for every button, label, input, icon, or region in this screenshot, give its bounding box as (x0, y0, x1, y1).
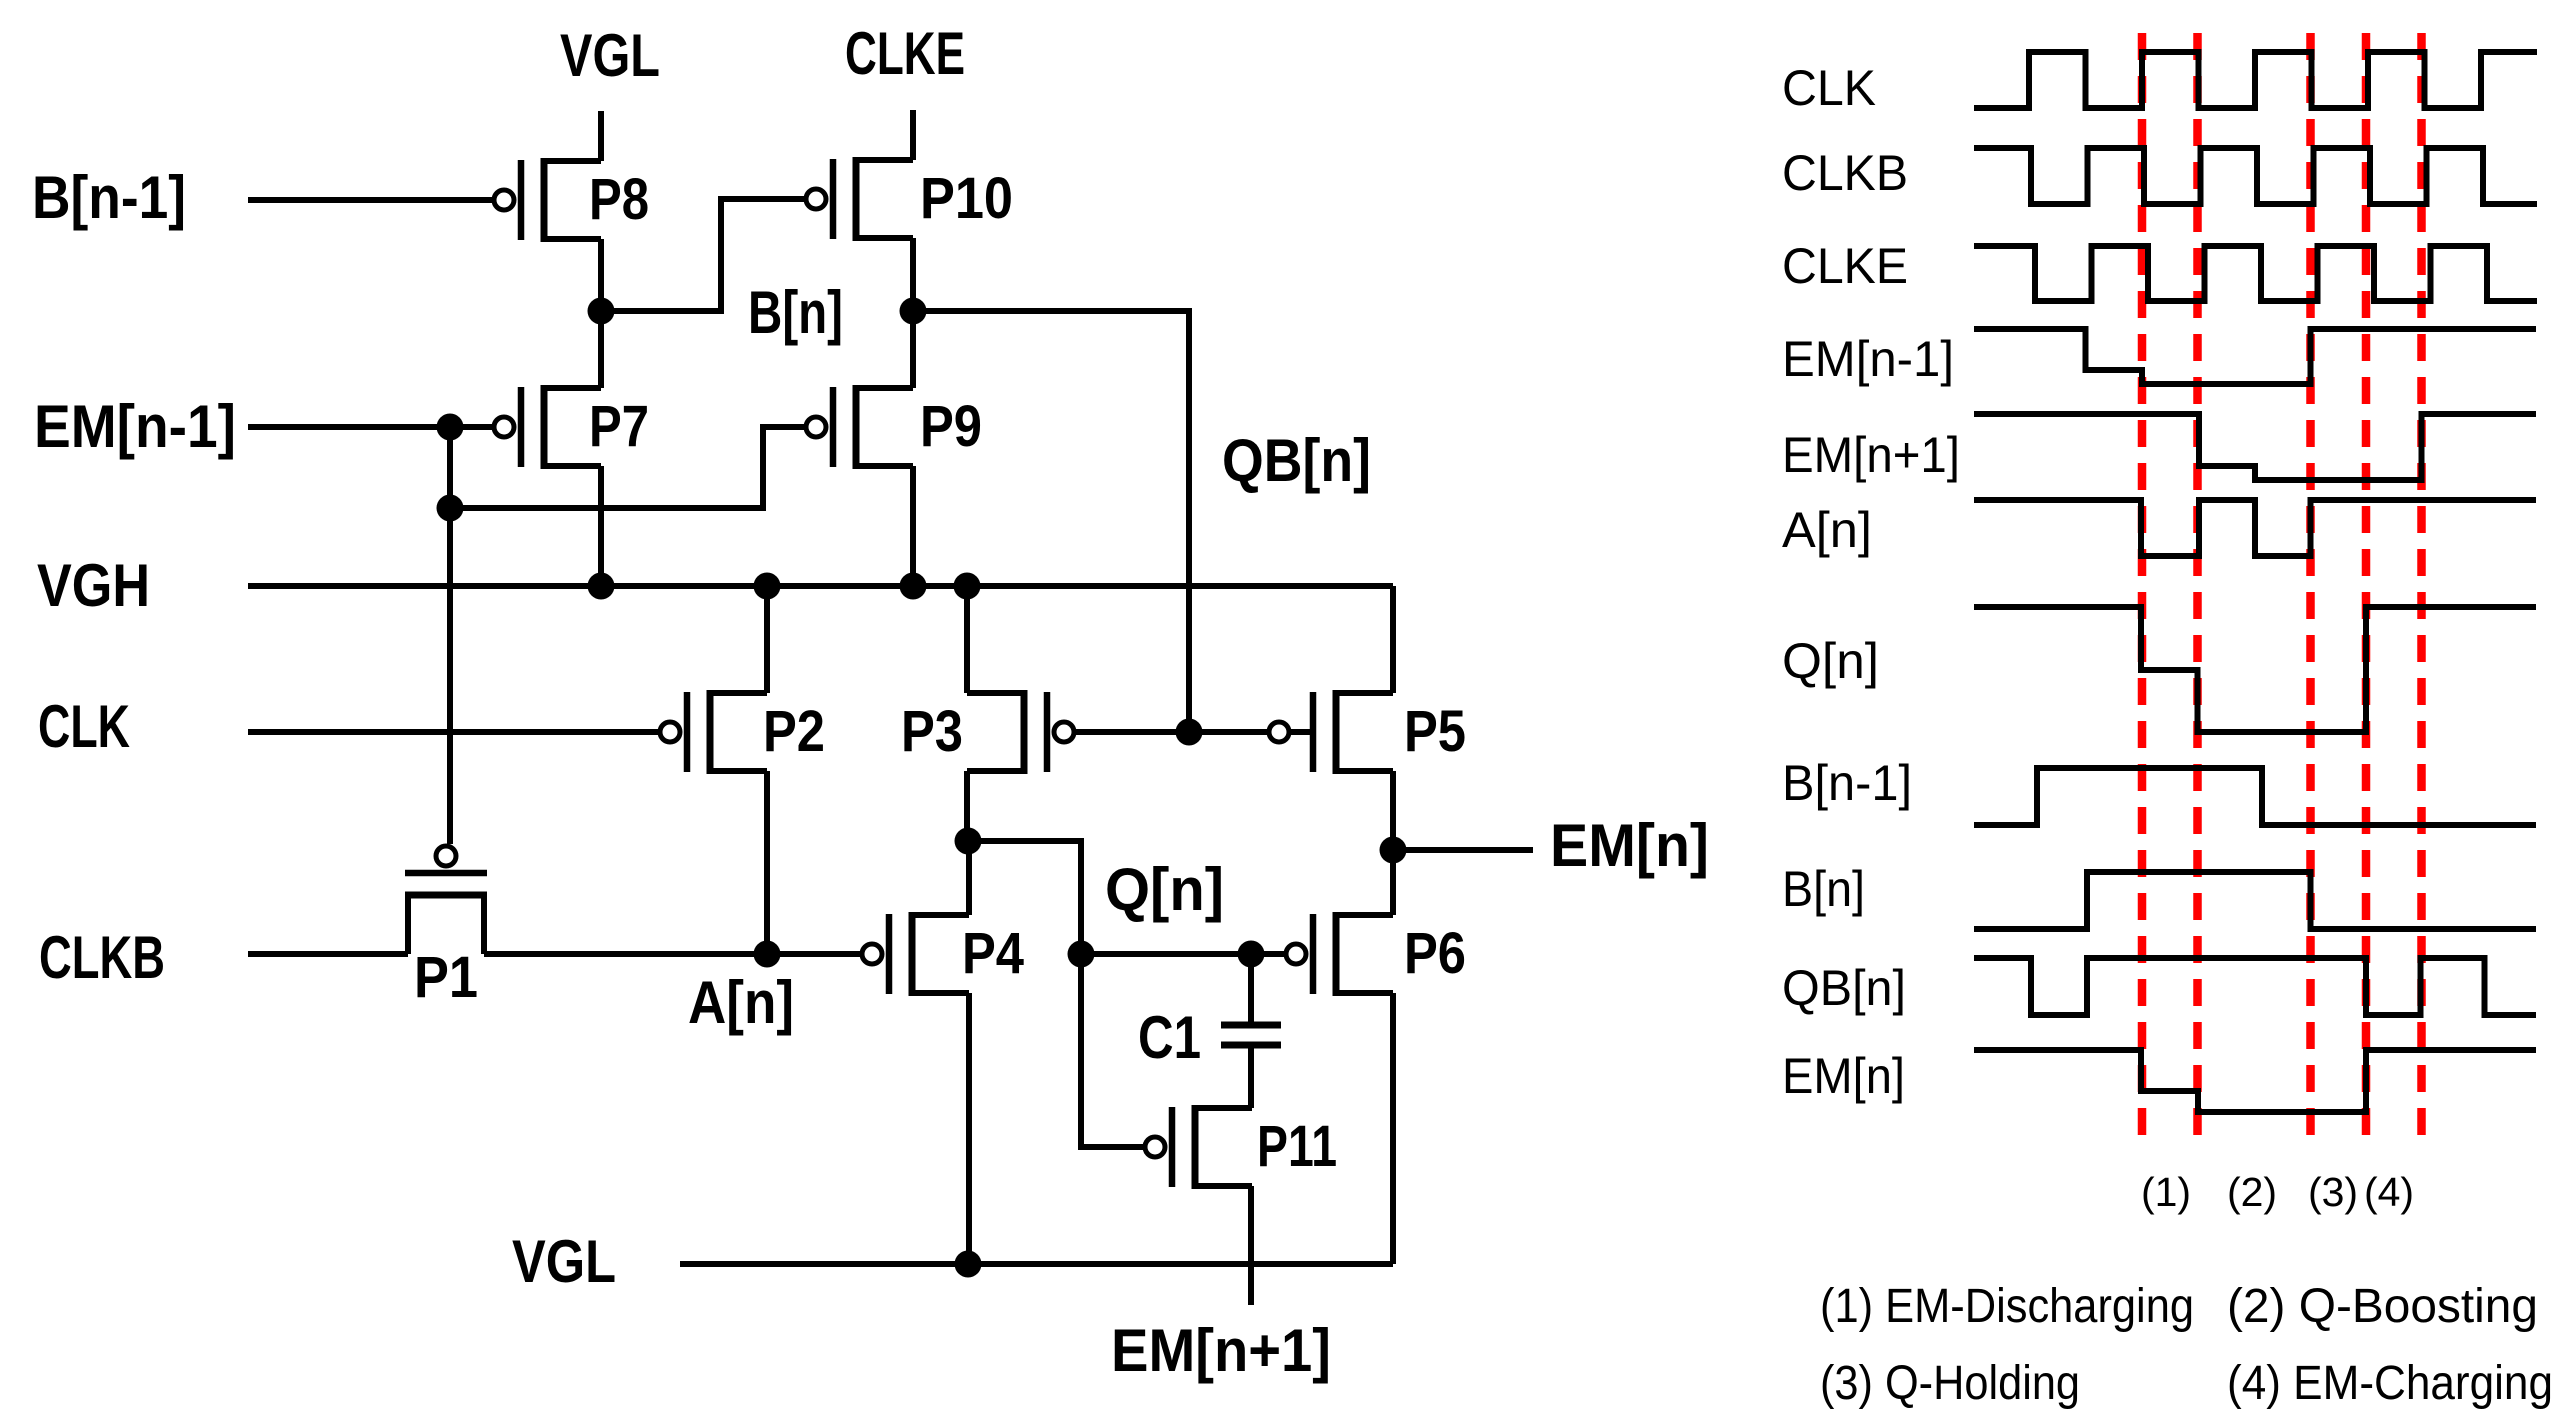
wire B[n] node to P10 gate (601, 199, 804, 311)
svg-text:(4) EM-Charging: (4) EM-Charging (2227, 1357, 2553, 1410)
svg-text:VGL: VGL (512, 1228, 616, 1295)
wire P6 source to EM[n] (1390, 850, 1396, 915)
wire Q[n] upper branch (968, 841, 1081, 954)
waveform A[n] (1974, 500, 2536, 556)
svg-text:P4: P4 (962, 921, 1024, 986)
svg-text:B[n]: B[n] (748, 279, 843, 346)
wire P5 source to VGH corner (1390, 586, 1396, 693)
transistor P4 (862, 912, 1024, 996)
svg-text:P8: P8 (589, 167, 649, 232)
wire P9 drain to VGH (910, 466, 916, 586)
wire P3 drain down (964, 771, 970, 841)
svg-text:CLKE: CLKE (845, 20, 965, 87)
capacitor C1 (1138, 1004, 1281, 1071)
wire P8 drain / P7 source vertical (598, 239, 604, 388)
waveform QB[n] (1974, 958, 2536, 1015)
node P2-VGH (754, 573, 781, 600)
transistor P2 (660, 690, 825, 774)
svg-text:P9: P9 (920, 394, 982, 459)
wire P2 drain to A[n] (764, 771, 770, 954)
power VGL (top) (560, 22, 660, 161)
svg-text:CLK: CLK (1782, 60, 1876, 116)
waveform CLK (1974, 52, 2537, 108)
node EM[n] (1380, 837, 1407, 864)
wire P3 source to VGH (964, 586, 970, 693)
waveform B[n] (1974, 872, 2536, 929)
svg-text:EM[n+1]: EM[n+1] (1782, 427, 1960, 483)
phase boundary dashed line 2 (2193, 33, 2202, 1150)
node P3-P4 (Q[n]) (955, 828, 982, 855)
node P7-VGH (588, 573, 615, 600)
svg-text:B[n]: B[n] (1782, 861, 1865, 917)
wire P7 drain to VGH (598, 466, 604, 586)
wire P8 source to VGL (598, 111, 604, 161)
wire P6 drain to VGL (1390, 993, 1396, 1264)
svg-text:B[n-1]: B[n-1] (1782, 755, 1912, 811)
phase boundary dashed line 3 (2306, 33, 2315, 1150)
wire B[n-1] to P8 gate (248, 197, 492, 203)
transistor P7 (494, 385, 649, 469)
node Q[n] (1068, 941, 1095, 968)
wire P1 drain to A[n] node (484, 951, 860, 957)
svg-text:CLK: CLK (38, 693, 130, 760)
node EM[n-1] branch (437, 495, 464, 522)
svg-text:VGL: VGL (560, 22, 660, 89)
node A[n] (754, 941, 781, 968)
transistor P10 (806, 157, 1013, 241)
wire EM[n-1] down to P1 gate (447, 508, 453, 844)
svg-text:P5: P5 (1404, 699, 1466, 764)
svg-text:(1): (1) (2141, 1169, 2191, 1215)
wire EM[n-1] to P7 gate (248, 424, 492, 430)
svg-text:CLKB: CLKB (39, 924, 165, 991)
wire P4 source up to Q node (966, 841, 972, 915)
wire VGL bottom rail (680, 1261, 1393, 1267)
node QB[n] on P3-P5 gate wire (1176, 719, 1203, 746)
transistor P1 (horizontal, gate on top) (405, 846, 487, 1010)
svg-text:(3): (3) (2308, 1169, 2358, 1215)
svg-text:QB[n]: QB[n] (1222, 427, 1371, 494)
svg-text:QB[n]: QB[n] (1782, 960, 1906, 1016)
svg-text:EM[n-1]: EM[n-1] (34, 393, 236, 460)
wire P11 drain to EM[n+1] (1248, 1186, 1254, 1305)
transistor P3 (mirrored) (901, 690, 1074, 774)
node P8-P7 junction (588, 298, 615, 325)
svg-text:(2): (2) (2227, 1169, 2277, 1215)
wire Q[n] down to P11 gate (1081, 954, 1144, 1147)
wire P10 drain / P9 source vertical (910, 238, 916, 388)
svg-text:P6: P6 (1404, 921, 1466, 986)
wire B[n] to QB[n] branch (913, 311, 1189, 732)
waveform CLKB (1974, 148, 2537, 204)
wire Q[n] to P6 gate (1081, 951, 1284, 957)
wire VGH rail (248, 583, 1393, 589)
svg-text:P1: P1 (414, 945, 478, 1010)
wire P4 drain to VGL (966, 993, 972, 1264)
svg-text:C1: C1 (1138, 1004, 1201, 1071)
svg-text:EM[n]: EM[n] (1782, 1048, 1905, 1104)
wire CLK to P2 gate (248, 729, 658, 735)
svg-text:(2) Q-Boosting: (2) Q-Boosting (2227, 1280, 2538, 1333)
waveform EM[n] (1974, 1050, 2536, 1112)
node EM[n-1] tap (437, 414, 464, 441)
svg-text:(4): (4) (2364, 1169, 2414, 1215)
svg-text:EM[n+1]: EM[n+1] (1111, 1317, 1331, 1384)
svg-text:Q[n]: Q[n] (1782, 633, 1879, 689)
waveform EM[n+1] (1974, 414, 2536, 480)
wire C1 top plate (1248, 954, 1254, 1022)
node P9-VGH (900, 573, 927, 600)
svg-text:CLKE: CLKE (1782, 238, 1908, 294)
waveform EM[n-1] (1974, 329, 2536, 384)
wire EM[n-1] vertical drop (447, 427, 453, 508)
wire EM[n] output (1393, 847, 1533, 853)
waveform Q[n] (1974, 607, 2536, 732)
svg-text:Q[n]: Q[n] (1105, 856, 1224, 923)
node P4-VGL (955, 1251, 982, 1278)
net CLKE (top stub) (845, 20, 965, 160)
wire P2 source to VGH (764, 586, 770, 693)
phase boundary dashed line 4 (2362, 33, 2371, 1150)
svg-text:A[n]: A[n] (688, 969, 794, 1036)
phase boundary dashed line 1 (2138, 33, 2147, 1150)
node B[n] (900, 298, 927, 325)
waveform CLKE (1974, 246, 2537, 301)
transistor P8 (494, 158, 649, 242)
svg-text:A[n]: A[n] (1782, 502, 1872, 558)
transistor P9 (806, 385, 982, 469)
transistor P6 (1286, 912, 1466, 996)
svg-text:P10: P10 (920, 166, 1013, 231)
node P3-VGH (954, 573, 981, 600)
wire P5 drain to EM[n] (1390, 771, 1396, 850)
svg-text:EM[n-1]: EM[n-1] (1782, 331, 1954, 387)
transistor P5 (1269, 690, 1466, 774)
svg-text:P3: P3 (901, 699, 963, 764)
svg-text:P7: P7 (589, 394, 649, 459)
waveform B[n-1] (1974, 768, 2536, 825)
svg-text:P11: P11 (1257, 1114, 1337, 1179)
svg-text:EM[n]: EM[n] (1550, 812, 1709, 879)
svg-text:B[n-1]: B[n-1] (32, 164, 186, 231)
svg-text:VGH: VGH (37, 552, 150, 619)
wire C1 bottom plate to P11 (1248, 1048, 1254, 1108)
node C1 top (1238, 941, 1265, 968)
svg-text:P2: P2 (763, 699, 825, 764)
svg-text:(3) Q-Holding: (3) Q-Holding (1820, 1357, 2080, 1410)
svg-text:CLKB: CLKB (1782, 145, 1908, 201)
wire EM[n-1] branch to P9 gate (450, 427, 804, 508)
wire P3 gate to P5 gate (1076, 729, 1267, 735)
wire CLKB to P1 source (248, 951, 408, 957)
phase boundary dashed line 5 (2417, 33, 2426, 1150)
transistor P11 (1145, 1105, 1337, 1189)
svg-text:(1) EM-Discharging: (1) EM-Discharging (1820, 1280, 2194, 1333)
